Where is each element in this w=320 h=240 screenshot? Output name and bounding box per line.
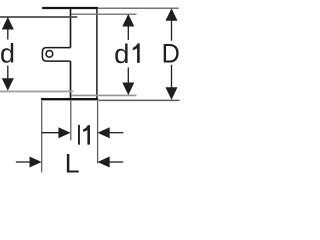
- product right wall upper: [70, 7, 72, 48]
- dimension l1: arrows: [42, 127, 124, 138]
- tab hole: [46, 50, 53, 57]
- dimension d: line + arrows: [2, 17, 14, 91]
- ext line vertical left (L): [41, 101, 43, 173]
- ext line D top: [98, 7, 179, 9]
- svg-text:d: d: [0, 39, 15, 69]
- dimension d1: line + arrows: [122, 14, 134, 95]
- label l1: [78, 125, 80, 145]
- product right wall lower: [70, 61, 72, 99]
- product top bar: [43, 7, 97, 9]
- ext line D bottom: [98, 99, 179, 101]
- product right end wall: [96, 8, 98, 99]
- ext line d1 bottom (gray): [71, 94, 136, 96]
- ext line vertical middle (l1 left): [70, 101, 72, 141]
- ext line d bottom (gray): [0, 90, 73, 92]
- svg-text:L: L: [65, 149, 80, 179]
- ext line vertical right (l1/L right): [97, 101, 99, 164]
- ext line d top: [0, 16, 77, 18]
- product bottom bar: [42, 98, 97, 100]
- svg-text:d: d: [114, 39, 129, 69]
- product pull tab: [42, 48, 70, 62]
- ext line d1 top: [71, 13, 136, 15]
- dimension D: line + arrows: [166, 8, 178, 100]
- svg-text:D: D: [162, 38, 180, 68]
- dimension L: arrows: [16, 157, 124, 168]
